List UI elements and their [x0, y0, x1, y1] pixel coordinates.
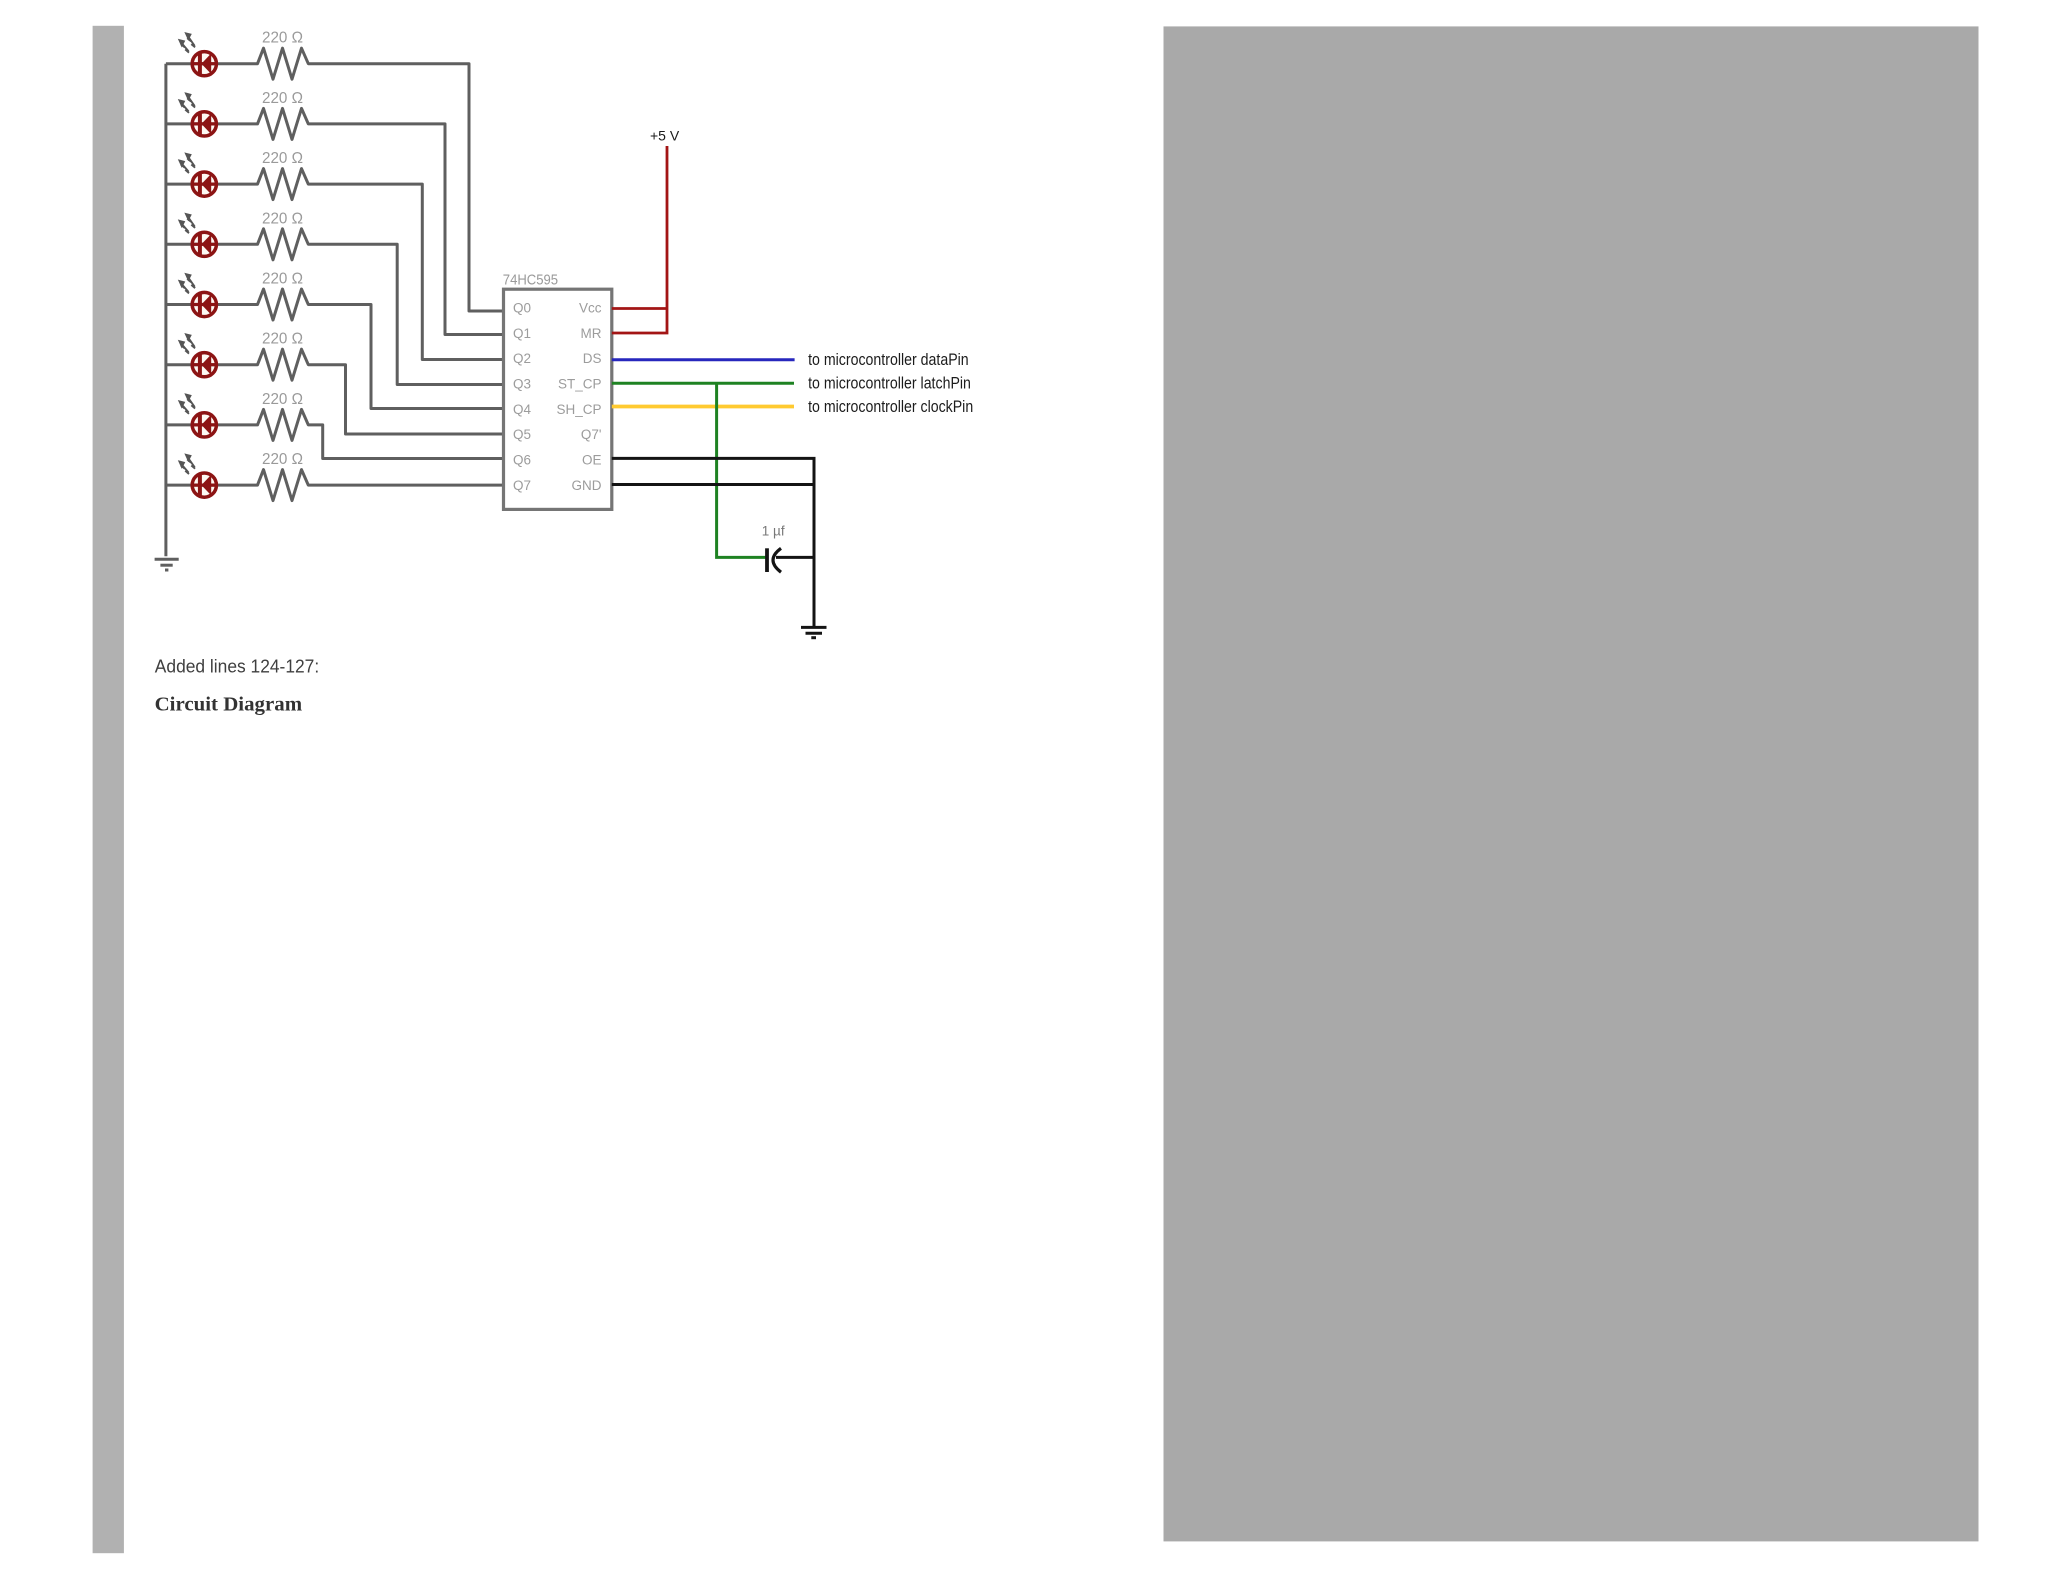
svg-text:to microcontroller clockPin: to microcontroller clockPin: [808, 398, 973, 416]
svg-text:220 Ω: 220 Ω: [262, 150, 303, 167]
svg-text:Q7: Q7: [513, 478, 531, 493]
svg-text:Q2: Q2: [513, 351, 531, 366]
svg-text:SH_CP: SH_CP: [556, 402, 601, 417]
svg-text:Added lines 124-127:: Added lines 124-127:: [155, 656, 319, 676]
svg-text:220 Ω: 220 Ω: [262, 210, 303, 227]
svg-text:DS: DS: [583, 351, 602, 366]
svg-text:Q3: Q3: [513, 377, 531, 392]
svg-text:MR: MR: [581, 326, 602, 341]
svg-text:74HC595: 74HC595: [503, 271, 558, 288]
svg-text:1 µf: 1 µf: [762, 523, 785, 538]
svg-text:to microcontroller latchPin: to microcontroller latchPin: [808, 375, 971, 393]
svg-text:220 Ω: 220 Ω: [262, 30, 303, 47]
svg-text:Q5: Q5: [513, 427, 531, 442]
svg-text:Q6: Q6: [513, 453, 531, 468]
svg-text:Circuit Diagram: Circuit Diagram: [155, 693, 303, 715]
svg-text:220 Ω: 220 Ω: [262, 271, 303, 288]
svg-text:220 Ω: 220 Ω: [262, 331, 303, 348]
svg-text:Q4: Q4: [513, 402, 532, 417]
svg-text:OE: OE: [582, 453, 602, 468]
svg-text:220 Ω: 220 Ω: [262, 451, 303, 468]
svg-text:GND: GND: [572, 478, 602, 493]
svg-text:to microcontroller dataPin: to microcontroller dataPin: [808, 351, 969, 369]
svg-text:220 Ω: 220 Ω: [262, 90, 303, 107]
svg-text:Q1: Q1: [513, 326, 531, 341]
svg-text:Q7': Q7': [581, 427, 602, 442]
svg-text:+5 V: +5 V: [650, 127, 680, 143]
svg-text:220 Ω: 220 Ω: [262, 391, 303, 408]
svg-text:Q0: Q0: [513, 301, 531, 316]
svg-text:Vcc: Vcc: [579, 301, 602, 316]
svg-text:ST_CP: ST_CP: [558, 377, 602, 392]
